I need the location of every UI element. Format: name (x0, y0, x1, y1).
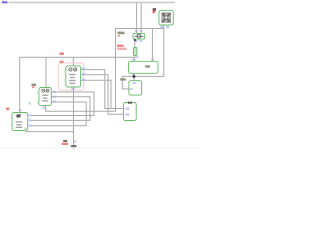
crystal X1 (159, 10, 173, 25)
wire (81, 70, 124, 109)
wire (133, 73, 135, 80)
IC U2 (129, 61, 159, 73)
refdes D1 (60, 52, 64, 63)
wire (73, 87, 75, 146)
wire (31, 102, 86, 126)
wire (134, 39, 136, 47)
junction below Q1 (134, 39, 136, 41)
pin labels U3 (130, 82, 136, 90)
wire (72, 57, 74, 66)
value label False (117, 45, 127, 50)
wire (19, 57, 21, 112)
wire (140, 3, 142, 34)
IC U3 (129, 81, 142, 95)
pin labels Q1 (135, 30, 142, 42)
pin labels U5 (126, 108, 130, 116)
pin labels U1 (71, 68, 85, 91)
wire (116, 29, 165, 112)
component Q1 (133, 33, 145, 39)
resistor R1 (134, 48, 139, 59)
IC U5 (124, 102, 137, 121)
wire (31, 92, 94, 116)
pin labels U2 (132, 59, 154, 76)
pin mark (29, 102, 31, 104)
label GND (62, 140, 76, 145)
wire (26, 130, 74, 131)
net flag (153, 8, 154, 13)
label ini (120, 78, 126, 80)
IC U4 (37, 88, 51, 106)
refdes T1 (6, 108, 9, 111)
junction (133, 75, 136, 78)
wire (46, 106, 116, 112)
sheet bottom border (0, 147, 200, 148)
wire (134, 55, 136, 61)
wire (81, 80, 111, 108)
wire (20, 56, 136, 58)
wire (81, 75, 124, 115)
ground (71, 145, 77, 148)
wire (31, 97, 90, 121)
wire (134, 26, 164, 77)
label B04 (118, 32, 125, 37)
refdes U4 (32, 84, 37, 88)
selection marker icon (1, 0, 8, 3)
IC U1 (64, 66, 81, 87)
pin labels U6 (19, 109, 32, 127)
sheet top border (9, 2, 176, 4)
highlight rect (58, 63, 83, 90)
wire (122, 76, 134, 89)
pin labels X1 (160, 26, 169, 28)
IC U6 (12, 113, 28, 131)
wire (136, 3, 138, 34)
wire (151, 29, 153, 62)
pin labels U4 (42, 91, 56, 109)
wire (45, 57, 47, 87)
